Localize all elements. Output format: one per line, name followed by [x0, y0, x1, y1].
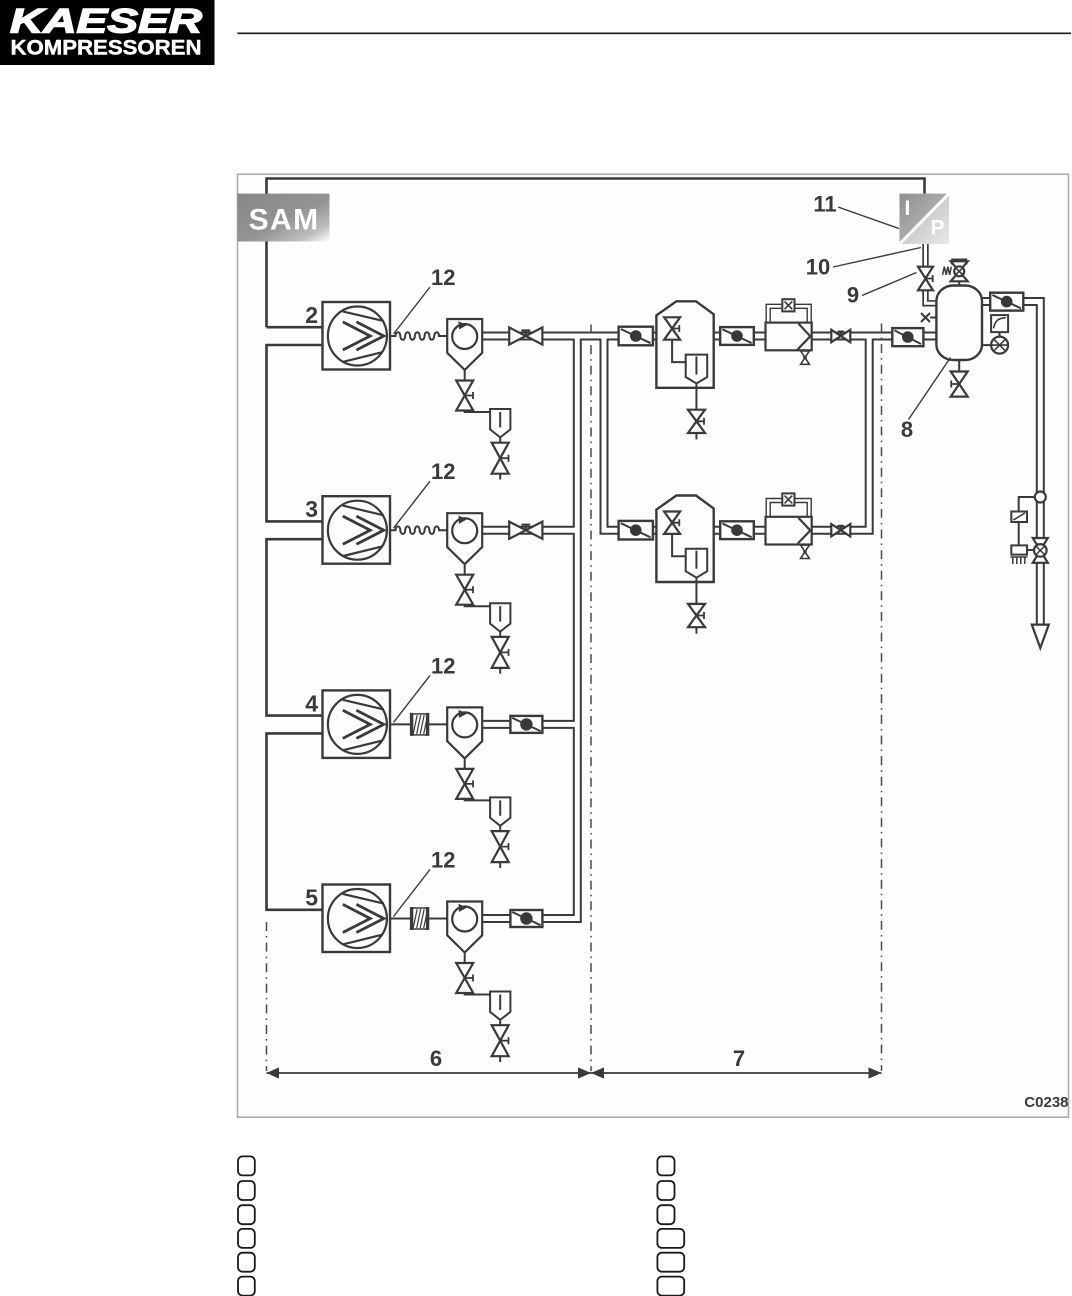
compressor 4 box: [323, 690, 391, 758]
diagram border frame: [238, 174, 1069, 1117]
compressor 2 chord bottom: [343, 352, 382, 362]
dimension 6 left arrowhead: [267, 1067, 280, 1078]
legend box L1: [238, 1156, 255, 1175]
drain elbow row2: [465, 411, 490, 413]
boundary line 6/7 centre: [590, 325, 592, 1072]
filter1 element chevron: [798, 324, 811, 350]
compressor 3 chord bottom: [343, 546, 382, 556]
legend box L6: [238, 1277, 255, 1296]
legend box R2: [657, 1181, 674, 1200]
plugged port cross: [921, 313, 936, 322]
check valve row5 ball: [520, 912, 532, 924]
flexible hose row2: [390, 332, 447, 340]
dryer2 drain line: [695, 578, 697, 604]
drain valve row4 lower tick: [500, 843, 508, 850]
svg-text:C0238: C0238: [1024, 1094, 1068, 1111]
drain valve row3 stem tick: [465, 586, 473, 593]
drain outlet row3: [499, 668, 501, 674]
branch check box: [1011, 512, 1027, 523]
drain elbow row3: [465, 605, 490, 607]
I/P converter lower triangle: [900, 194, 950, 244]
check valve dryer2 inlet ball: [630, 524, 642, 536]
svg-text:6: 6: [430, 1046, 442, 1071]
filter1 bypass valve cross: [785, 301, 793, 309]
filter2 bypass valve box: [782, 493, 794, 505]
drain outlet row5: [499, 1056, 501, 1062]
check valve dryer2 outlet diagonal: [722, 524, 751, 538]
dimension 6 right arrowhead: [578, 1067, 591, 1078]
check valve vessel inlet: [892, 328, 923, 346]
safety valve circle: [954, 266, 964, 276]
shut-off valve row2 stem: [521, 330, 530, 335]
check valve row4: [510, 716, 542, 733]
compressor 2 chord top: [343, 311, 384, 321]
takeoff node circle: [1035, 492, 1046, 503]
filter2 drain dot: [803, 550, 807, 554]
refrigeration dryer 2 body: [656, 496, 713, 583]
dimension 7 left arrowhead: [591, 1067, 604, 1078]
filter1 bypass valve box: [782, 299, 794, 311]
dimension 7 right arrowhead: [869, 1067, 882, 1078]
outlet valve row2 stem: [838, 526, 844, 531]
shut-off valve row2: [509, 327, 542, 344]
refrigeration dryer 1 body: [656, 301, 713, 388]
drain stub row5: [464, 953, 466, 964]
legend box R1: [657, 1156, 674, 1175]
flexible hose row3: [390, 526, 447, 534]
check valve row4 diagonal: [512, 718, 540, 731]
check valve row4 ball: [520, 718, 532, 730]
dryer2 internal valve tick: [672, 519, 680, 526]
branch line lower: [1018, 522, 1020, 545]
svg-text:12: 12: [431, 653, 455, 678]
dryer2 internal filter vessel: [686, 549, 708, 578]
compressor 4 chevrons: [343, 710, 384, 738]
safety valve stub: [958, 281, 960, 285]
svg-text:12: 12: [431, 848, 455, 873]
outlet valve row1 stem: [838, 331, 844, 336]
separator row5 body: [447, 902, 482, 953]
drain valve row3 upper: [456, 575, 473, 605]
SAM controller box: [237, 194, 329, 242]
bellows end bars row5: [412, 907, 428, 930]
legend boxes left column: [238, 1156, 255, 1295]
valve 9 tick: [926, 275, 934, 282]
separator row5 arrow: [459, 904, 467, 912]
blow-off valve circle: [1034, 544, 1047, 557]
leader line 8: [909, 358, 951, 420]
drain valve row5 lower: [492, 1025, 509, 1056]
legend box R4: [657, 1229, 684, 1248]
compressor 3 chord top: [343, 506, 384, 516]
legend box L3: [238, 1205, 255, 1224]
leader line 12 row3: [394, 481, 431, 528]
dryer2 filter inner line: [695, 551, 697, 569]
drain outlet row4: [499, 862, 501, 868]
compressor 5 chord bottom: [343, 935, 382, 945]
connection line row5: [390, 918, 447, 920]
dryer1 drain valve: [688, 410, 705, 433]
svg-text:12: 12: [431, 459, 455, 484]
compressor 3 box: [323, 496, 391, 564]
separator row4 body: [447, 707, 482, 758]
dryer2 internal valve: [664, 512, 680, 534]
svg-text:P: P: [931, 217, 945, 240]
compressor 2 box: [323, 302, 391, 370]
svg-text:12: 12: [431, 265, 455, 290]
wire row2 to row3 chain: [267, 345, 323, 521]
drain valve row3 lower: [492, 637, 509, 668]
reservoir inner line row4: [499, 800, 501, 815]
compressor 5 box: [323, 885, 391, 953]
pressure switch box: [991, 315, 1008, 332]
separator row2 circle: [452, 324, 477, 349]
blow-off valve body: [1033, 538, 1048, 563]
compressor 2 rotor circle: [328, 307, 387, 366]
check valve dryer1 outlet: [720, 327, 754, 345]
filter2 drain valve: [801, 545, 810, 558]
condensate reservoir row2: [490, 409, 510, 437]
check valve dryer1 inlet diagonal: [621, 329, 651, 343]
filter1 drain valve: [801, 351, 810, 364]
check valve vessel outlet: [990, 293, 1023, 311]
legend box R5: [657, 1253, 684, 1272]
outlet valve row1: [831, 330, 850, 342]
dryer1 drain valve tick: [696, 418, 704, 425]
exhaust muffler: [1011, 557, 1028, 564]
check valve dryer2 inlet diagonal: [621, 523, 651, 537]
vessel drain valve: [951, 372, 968, 397]
pressure switch curve: [994, 318, 1006, 329]
svg-text:SAM: SAM: [249, 204, 319, 237]
filter2 bypass valve cross: [785, 496, 793, 504]
boundary line right: [881, 324, 883, 1072]
bellows hatch row4: [413, 715, 428, 734]
separator row3 circle: [452, 518, 477, 543]
leader line 9: [862, 273, 917, 296]
leader line 12 row5: [394, 870, 431, 917]
check valve dryer1 outlet diagonal: [722, 329, 751, 343]
drain valve row4 lower: [492, 831, 509, 862]
vessel drain valve tick: [951, 381, 959, 388]
drain valve row2 upper: [456, 381, 473, 411]
separator row2 body: [447, 319, 482, 370]
reservoir inner line row5: [499, 995, 501, 1010]
branch link to valve: [1027, 549, 1034, 551]
svg-text:7: 7: [733, 1046, 745, 1071]
check valve dryer1 inlet ball: [630, 330, 642, 342]
valve 9 (pressure regulating): [918, 267, 933, 291]
wire SAM bus top run to I/P converter: [267, 179, 925, 328]
takeoff branch line: [1019, 497, 1035, 512]
svg-text:KOMPRESSOREN: KOMPRESSOREN: [11, 36, 202, 60]
drain stub row2: [464, 370, 466, 381]
filter2 body: [766, 517, 812, 545]
air receiver vessel 8: [936, 286, 982, 361]
wire row2 control branch: [267, 326, 323, 329]
drain outlet row2: [499, 474, 501, 480]
boundary line left (below SAM bus): [266, 922, 268, 1071]
blow-off valve cross: [1036, 546, 1045, 555]
reservoir outlet stub row4: [499, 826, 501, 831]
reservoir inner line row2: [499, 412, 501, 427]
drain valve row5 upper: [456, 963, 473, 993]
safety valve body: [951, 261, 968, 281]
filter1 drain dot: [803, 356, 807, 360]
compressor 2 chevrons: [343, 322, 384, 350]
vessel drain stub: [958, 360, 960, 372]
condensate reservoir row5: [490, 992, 510, 1020]
safety valve spring: [943, 267, 952, 275]
dryer1 internal line: [672, 340, 686, 362]
check valve dryer1 inlet: [619, 327, 653, 346]
safety valve top bar: [951, 259, 967, 262]
wire row4 to row5 chain: [267, 733, 323, 909]
legend box R3: [657, 1205, 674, 1224]
drain stub row4: [464, 758, 466, 769]
separator row4 arrow: [459, 710, 467, 718]
separator row5 circle: [452, 907, 477, 932]
separator row3 body: [447, 513, 482, 564]
dryer1 internal filter vessel: [686, 355, 708, 384]
I/P diagonal: [900, 194, 950, 244]
wire row3 to row4 chain: [267, 539, 323, 715]
svg-text:2: 2: [305, 302, 318, 328]
svg-text:5: 5: [305, 885, 318, 911]
filter1 body: [766, 323, 812, 351]
dryer1 drain line: [695, 384, 697, 410]
drain valve row4 upper: [456, 769, 473, 799]
safety valve cross: [956, 268, 963, 275]
check valve dryer2 outlet ball: [731, 524, 743, 536]
dryer1 internal valve: [664, 317, 680, 339]
svg-text:8: 8: [901, 417, 913, 442]
drain valve row3 lower tick: [500, 649, 508, 656]
check valve dryer2 outlet: [720, 521, 754, 539]
check valve dryer2 inlet: [619, 521, 653, 540]
legend box L2: [238, 1181, 255, 1200]
dryer1 internal valve tick: [672, 325, 680, 332]
svg-text:3: 3: [305, 496, 318, 522]
compressor 3 chevrons: [343, 516, 384, 544]
separator row2 arrow: [459, 321, 467, 329]
svg-text:4: 4: [305, 690, 318, 716]
dryer1 filter inner line: [695, 357, 697, 375]
compressor 4 rotor circle: [328, 695, 387, 754]
check valve vessel outlet ball: [1001, 296, 1013, 308]
dryer2 internal line: [672, 534, 686, 556]
check valve vessel inlet ball: [902, 331, 914, 343]
compressor 4 chord top: [343, 700, 384, 710]
condensate reservoir row3: [490, 603, 510, 631]
shut-off valve row3 stem: [521, 525, 530, 530]
reservoir outlet stub row2: [499, 437, 501, 442]
drain valve row2 lower tick: [500, 455, 508, 462]
dimension line 6: [267, 1072, 592, 1074]
drain valve row2 lower: [492, 443, 509, 474]
check valve row5: [510, 910, 542, 927]
check valve vessel outlet diagonal: [992, 295, 1021, 308]
leader line 11: [838, 207, 899, 229]
legend boxes right column: [657, 1156, 684, 1295]
compressor 5 rotor circle: [328, 889, 387, 948]
dryer2 drain outlet: [695, 627, 697, 634]
dryer1 drain outlet: [695, 433, 697, 440]
svg-text:9: 9: [847, 283, 859, 308]
pressure switch link: [999, 332, 1001, 337]
compressor 4 chord bottom: [343, 741, 382, 751]
dimension line 7: [591, 1072, 882, 1074]
check valve dryer1 outlet ball: [731, 330, 743, 342]
safety valve bar ticks: [952, 260, 967, 265]
compressor 5 chevrons: [343, 904, 384, 932]
reservoir inner line row3: [499, 606, 501, 621]
reservoir outlet stub row5: [499, 1020, 501, 1025]
leader line 10: [833, 248, 921, 268]
check valve vessel inlet diagonal: [895, 330, 922, 344]
pressure gauge cross: [991, 339, 1008, 351]
svg-text:I: I: [905, 197, 911, 220]
bellows end bars row4: [412, 713, 428, 736]
branch solenoid box: [1011, 545, 1027, 554]
filter2 element chevron: [798, 518, 811, 544]
leader line 12 row2: [394, 287, 431, 334]
reservoir outlet stub row3: [499, 632, 501, 637]
dryer2 drain valve: [688, 604, 705, 627]
condensate reservoir row4: [490, 797, 510, 825]
dryer2 drain valve tick: [696, 612, 704, 619]
pressure gauge: [991, 337, 1008, 354]
svg-text:10: 10: [806, 255, 830, 280]
drain valve row2 stem tick: [465, 392, 473, 399]
bellows hatch row5: [413, 909, 428, 928]
svg-text:11: 11: [813, 192, 836, 217]
top horizontal rule: [237, 32, 1071, 34]
I/P converter upper triangle: [900, 194, 950, 244]
drain stub row3: [464, 564, 466, 575]
leader line 12 row4: [394, 675, 431, 722]
legend box R6: [657, 1277, 684, 1296]
branch check box diagonal: [1013, 513, 1025, 520]
drain elbow row5: [465, 993, 490, 995]
compressor 5 chord top: [343, 894, 384, 904]
drain valve row4 stem tick: [465, 780, 473, 787]
separator row4 circle: [452, 712, 477, 737]
drain elbow row4: [465, 799, 490, 801]
drain valve row5 stem tick: [465, 975, 473, 982]
shut-off valve row3: [509, 522, 542, 539]
check valve row5 diagonal: [512, 912, 540, 925]
pressure gauge connect line: [982, 344, 991, 346]
compressor 3 rotor circle: [328, 501, 387, 560]
bellows connector row5: [412, 908, 428, 929]
drain valve row5 lower tick: [500, 1037, 508, 1044]
outlet valve row2: [831, 524, 850, 536]
connection line row4: [390, 723, 447, 725]
vent arrow: [1032, 625, 1049, 648]
legend box L4: [238, 1229, 255, 1248]
KAESER logo block: [0, 0, 215, 65]
bellows connector row4: [412, 714, 428, 735]
separator row3 arrow: [459, 516, 467, 524]
legend box L5: [238, 1253, 255, 1272]
